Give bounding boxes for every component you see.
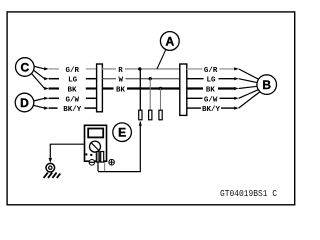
wire B pin4: [239, 90, 258, 99]
wire LG right: [187, 77, 239, 80]
node C: [15, 58, 34, 77]
svg-text:G/R: G/R: [65, 67, 79, 75]
multimeter indicator dot 2: [90, 154, 92, 156]
multimeter terminal minus: [96, 152, 99, 163]
svg-text:B: B: [262, 78, 271, 92]
svg-text:G/W: G/W: [204, 96, 218, 104]
wire meter minus to ground: [49, 144, 85, 163]
wire B pin3: [239, 86, 258, 88]
wire BK drop: [160, 89, 162, 111]
wire D pin1: [33, 97, 48, 101]
svg-text:BK: BK: [116, 87, 126, 95]
wire W drop: [149, 79, 151, 111]
plus symbol: [109, 159, 115, 165]
connector 2: [180, 64, 187, 115]
minus symbol: [89, 160, 95, 166]
svg-text:BK/Y: BK/Y: [202, 106, 221, 114]
terminal lead 3: [159, 110, 162, 120]
svg-text:D: D: [20, 96, 29, 110]
terminal lead 2: [149, 110, 152, 120]
multimeter dial: [90, 141, 101, 152]
wire C pin3: [32, 74, 49, 91]
wire B pin1: [239, 69, 259, 79]
svg-text:W: W: [119, 77, 124, 85]
svg-text:BK/Y: BK/Y: [63, 106, 82, 114]
connector 1: [97, 64, 103, 112]
svg-text:BK: BK: [67, 87, 77, 95]
wire meter plus lead: [98, 121, 142, 171]
wire R drop: [139, 69, 141, 111]
wire LG left: [49, 78, 97, 80]
svg-text:BK: BK: [206, 87, 216, 95]
wire G/W right: [187, 97, 239, 100]
wire G/W left: [49, 97, 97, 99]
svg-text:R: R: [118, 67, 123, 75]
svg-text:G/W: G/W: [65, 96, 79, 104]
wire BK/Y right: [187, 107, 239, 110]
wire BK: [102, 87, 179, 89]
wire R: [102, 68, 179, 70]
multimeter display window: [88, 129, 103, 138]
junction on BK wire: [159, 87, 162, 90]
multimeter indicator dot 1: [85, 153, 87, 155]
svg-text:C: C: [20, 60, 29, 74]
svg-text:LG: LG: [68, 77, 78, 85]
wire C pin2: [33, 70, 48, 80]
terminal lead 1: [139, 110, 142, 120]
wire W: [102, 78, 179, 80]
node E: [113, 123, 132, 142]
svg-text:LG: LG: [206, 77, 216, 85]
ground: [44, 163, 61, 178]
leader line A: [157, 49, 166, 69]
wire BK right: [187, 87, 239, 90]
svg-text:G/R: G/R: [204, 67, 218, 75]
wire B pin5: [239, 92, 260, 108]
node A: [160, 32, 179, 51]
multimeter E body: [85, 125, 107, 161]
wire BK/Y left: [49, 107, 97, 109]
node B: [257, 75, 277, 95]
junction on W wire: [149, 77, 152, 80]
svg-text:E: E: [118, 126, 126, 140]
svg-text:GT04019BS1 C: GT04019BS1 C: [220, 188, 277, 199]
wire G/R left: [49, 68, 97, 70]
wire D pin2: [33, 105, 48, 109]
wire B pin2: [239, 79, 258, 83]
wire G/R right: [187, 67, 239, 70]
node D: [15, 93, 34, 112]
wire BK left: [49, 87, 97, 89]
svg-text:A: A: [165, 34, 174, 48]
wire C pin1: [34, 66, 49, 70]
multimeter terminal plus: [101, 152, 104, 163]
junction on R wire: [138, 67, 141, 70]
